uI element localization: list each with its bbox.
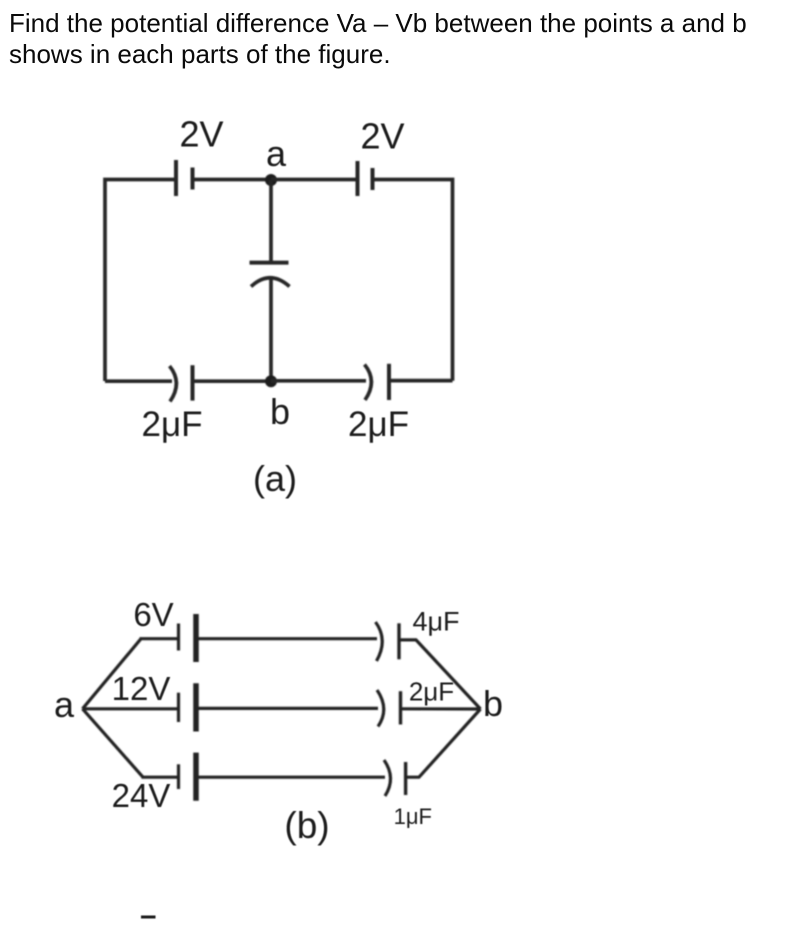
svg-text:12V: 12V — [112, 670, 171, 707]
capacitor C1 straight plate — [191, 365, 195, 400]
svg-text:24V: 24V — [112, 777, 171, 814]
wire: capacitor C4 to node b diagonal — [399, 640, 481, 709]
svg-text:a: a — [54, 684, 75, 725]
svg-text:b: b — [483, 683, 503, 724]
node b junction dot — [265, 375, 277, 387]
wire: node a to middle branch battery B4 — [83, 707, 179, 710]
svg-text:2μF: 2μF — [348, 405, 409, 444]
svg-text:2μF: 2μF — [141, 405, 202, 444]
wire: node a to battery B2 — [271, 178, 358, 182]
capacitor C2 straight plate — [387, 364, 391, 400]
wire: battery B4 to capacitor C5 — [199, 707, 379, 710]
battery B3 (6V) short plate — [177, 624, 180, 651]
capacitor C4 straight plate — [397, 623, 400, 659]
wire: capacitor C1 to node b — [193, 379, 272, 383]
battery B2 (2V, top-right) long plate — [356, 161, 360, 196]
capacitor C5 straight plate — [399, 691, 402, 724]
dash mark bottom — [141, 916, 156, 919]
capacitor C5 (2uF) curved plate — [377, 690, 384, 727]
wire: capacitor C5 to node b — [401, 707, 481, 710]
wire: capacitor C6 to node b diagonal — [406, 709, 481, 777]
battery B5 long plate (thick) — [193, 753, 199, 801]
svg-text:2μF: 2μF — [409, 677, 454, 707]
wire: node b to capacitor C2 — [271, 379, 366, 383]
capacitor C1 (2uF bottom-left) curved plate — [170, 366, 177, 402]
battery B5 (24V) short plate — [177, 764, 180, 789]
svg-text:a: a — [266, 133, 287, 174]
wire: node a to bottom branch diagonal — [83, 709, 144, 777]
wire: capacitor C2 to bottom-right corner — [389, 379, 453, 383]
capacitor C3 curved plate — [251, 278, 290, 287]
wire: capacitor C3 down to node b — [269, 279, 273, 382]
capacitor C3 (middle) flat plate — [250, 261, 289, 265]
battery B1 short plate — [191, 168, 195, 190]
node a junction dot — [265, 174, 277, 186]
capacitor C4 (4uF) curved plate — [376, 622, 383, 661]
wire: battery B5 to capacitor C6 — [199, 776, 386, 779]
wire: bottom-left corner to capacitor C1 — [105, 379, 172, 383]
wire: top-left from corner to battery B1 — [105, 180, 176, 382]
capacitor C2 (2uF bottom-right) curved plate — [365, 365, 372, 401]
battery B4 (12V) short plate — [177, 693, 180, 722]
svg-text:2V: 2V — [360, 116, 404, 157]
capacitor C6 (1uF) curved plate — [384, 760, 391, 796]
problem statement text — [9, 8, 747, 70]
svg-text:1μF: 1μF — [394, 804, 432, 829]
battery B2 short plate — [371, 168, 375, 190]
svg-text:(b): (b) — [284, 805, 329, 846]
battery B3 long plate (thick) — [193, 614, 199, 662]
wire: node a to top branch diagonal — [83, 639, 142, 709]
wire: battery B2 to top-right corner down right edge — [373, 180, 453, 381]
wire: battery B1 to node a — [193, 178, 272, 182]
wire: node a down to capacitor C3 — [269, 180, 273, 263]
svg-text:b: b — [270, 391, 290, 432]
svg-text:6V: 6V — [133, 596, 173, 633]
wire: bottom branch stub to battery B5 — [142, 776, 179, 779]
wire: battery B3 to capacitor C4 — [199, 637, 378, 640]
battery B4 long plate (thick) — [193, 683, 199, 731]
wire: top branch stub to battery B3 — [140, 637, 179, 640]
svg-text:2V: 2V — [179, 114, 223, 155]
battery B1 (2V, top-left) long plate — [174, 160, 178, 196]
capacitor C6 straight plate — [404, 762, 407, 795]
svg-text:4μF: 4μF — [412, 607, 459, 637]
svg-text:(a): (a) — [253, 458, 297, 499]
